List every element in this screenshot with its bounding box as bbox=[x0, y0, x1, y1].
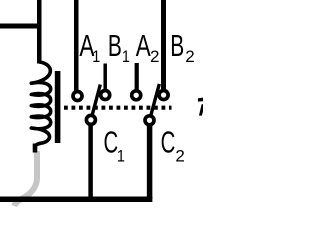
contact B1 bbox=[101, 91, 110, 100]
svg-text:2: 2 bbox=[175, 147, 184, 166]
wire B2 from top bbox=[161, 0, 166, 91]
wire C1 to bus bbox=[88, 124, 93, 199]
contact B2 bbox=[159, 91, 168, 100]
bottom bus wire bbox=[0, 197, 152, 203]
core bar of relay bbox=[55, 71, 61, 143]
coil bottom lead stub bbox=[33, 144, 38, 153]
svg-text:2: 2 bbox=[185, 47, 194, 66]
wire left horizontal to coil branch bbox=[0, 24, 42, 29]
lever switch 1 bbox=[91, 85, 100, 120]
contact A2 bbox=[132, 91, 141, 100]
clipped italic label T: slanted stem bbox=[199, 104, 205, 115]
svg-text:C: C bbox=[161, 124, 176, 159]
svg-text:B: B bbox=[170, 28, 184, 63]
svg-text:B: B bbox=[108, 28, 122, 63]
svg-text:A: A bbox=[136, 29, 151, 63]
wire C2 to bus bbox=[147, 124, 153, 199]
wire gray return from coil bottom to bottom bus bbox=[14, 151, 37, 206]
contact C1 bbox=[86, 115, 95, 124]
wire A1 from top bbox=[74, 0, 79, 92]
inductor coil L1 bbox=[31, 62, 50, 153]
wire A2 stub bbox=[135, 63, 139, 91]
wire coil top lead vertical bbox=[37, 0, 42, 64]
dotted mechanical linkage bbox=[64, 106, 172, 110]
wire B1 stub bbox=[103, 64, 107, 92]
svg-text:1: 1 bbox=[122, 48, 130, 66]
clipped italic label T at right edge: crossbar bbox=[198, 98, 203, 102]
svg-text:1: 1 bbox=[117, 147, 125, 165]
lever switch 2 bbox=[150, 84, 160, 120]
contact C2 bbox=[145, 116, 154, 125]
svg-text:1: 1 bbox=[92, 48, 100, 66]
svg-text:C: C bbox=[104, 124, 119, 159]
contact A1 bbox=[73, 92, 82, 101]
svg-text:2: 2 bbox=[150, 47, 159, 66]
